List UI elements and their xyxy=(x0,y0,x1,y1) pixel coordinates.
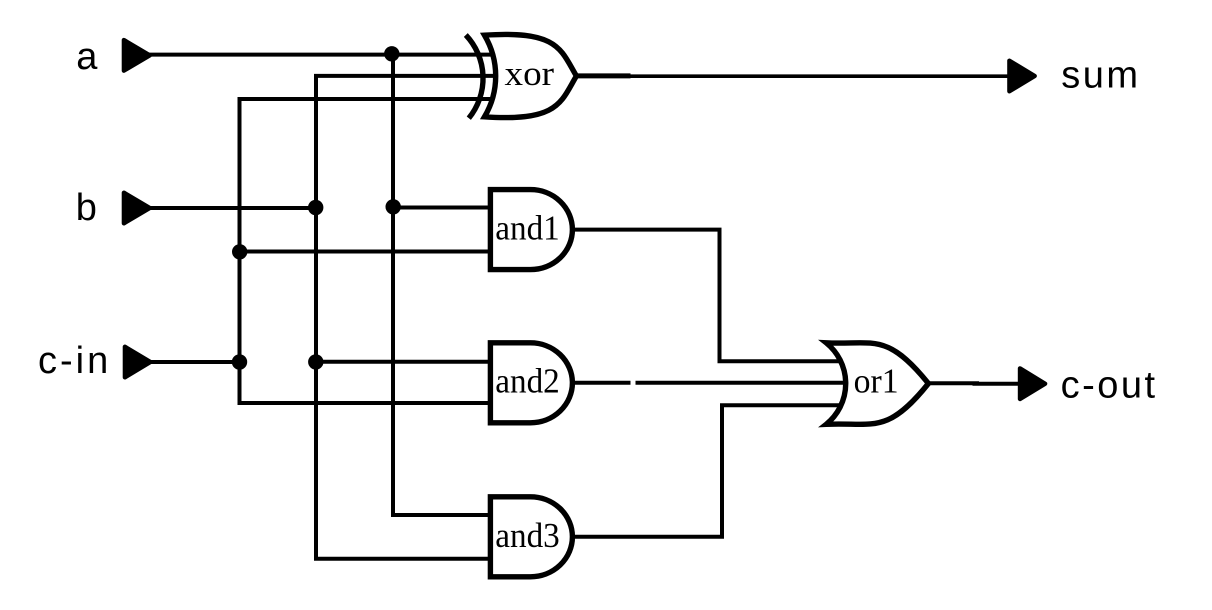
wire and2 output segment 1 xyxy=(570,381,631,385)
junction dot c-in row at vertical A xyxy=(232,354,247,369)
wire a input row xyxy=(149,53,500,57)
output arrow c-out xyxy=(1020,368,1045,399)
wire and2 output segment 2 to or1 middle input xyxy=(636,381,855,385)
svg-text:and2: and2 xyxy=(495,362,560,401)
wire or1 output to c-out xyxy=(973,382,1020,386)
svg-text:sum: sum xyxy=(1061,55,1140,97)
and gate and3 body xyxy=(490,497,572,577)
svg-text:c-out: c-out xyxy=(1061,365,1158,407)
junction dot and1-bottom branch on vertical A xyxy=(232,244,247,259)
wire c-in input row xyxy=(149,360,240,364)
svg-text:or1: or1 xyxy=(854,362,899,401)
wire and3 output to or1 bottom input xyxy=(570,405,854,537)
wire xor output lead xyxy=(571,73,631,78)
and gate and1 body xyxy=(490,190,572,270)
junction dot and2-top branch on vertical B xyxy=(308,354,323,369)
xor gate extra back arc xyxy=(466,35,483,118)
junction dot on a row at vertical C xyxy=(384,46,399,61)
svg-text:a: a xyxy=(76,36,98,78)
wire or1 output lead xyxy=(924,381,979,385)
wire net a: vertical C down to and3 top input xyxy=(393,55,497,515)
svg-text:xor: xor xyxy=(505,54,555,93)
junction dot b row at vertical B xyxy=(308,200,323,215)
wire xor output to sum xyxy=(631,74,1009,78)
output arrow sum xyxy=(1009,61,1034,92)
input port a xyxy=(124,40,150,71)
svg-text:and1: and1 xyxy=(495,209,560,248)
wire and2 top input row xyxy=(316,360,497,364)
xor gate body xyxy=(485,34,577,117)
wire and1 bottom input row xyxy=(240,250,498,254)
and gate and2 body xyxy=(490,343,572,423)
wire and1 top input row xyxy=(393,206,497,210)
junction dot and1-top branch on vertical C xyxy=(386,199,401,214)
wire and1 output to or1 top input xyxy=(570,230,854,362)
input port b xyxy=(124,193,150,224)
wire net c-in: xor bottom input, vertical A, and2 bottom input xyxy=(240,99,498,403)
svg-text:and3: and3 xyxy=(495,516,560,555)
svg-text:b: b xyxy=(76,187,97,229)
wire net b: xor mid input, vertical B, and3 bottom input xyxy=(316,76,497,559)
or gate or1 body xyxy=(826,343,928,425)
input port c-in xyxy=(125,347,150,378)
svg-text:c-in: c-in xyxy=(38,340,111,382)
wire b input row xyxy=(149,206,316,210)
